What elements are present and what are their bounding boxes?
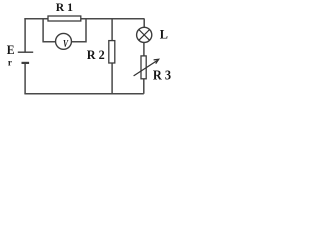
- svg-text:V: V: [63, 39, 69, 50]
- svg-text:L: L: [160, 28, 168, 42]
- wire voltmeter left drop: [42, 19, 56, 42]
- voltmeter V: circle body: [56, 33, 72, 49]
- wire top horizontal: [24, 18, 144, 20]
- lamp L: X cross: [139, 30, 150, 41]
- resistor R2 box: [109, 41, 115, 63]
- wire left vertical upper (to battery): [24, 19, 26, 52]
- battery E (internal resistance r): long positive plate: [18, 51, 33, 53]
- wire left vertical lower (from battery): [24, 63, 26, 94]
- svg-text:R 3: R 3: [153, 67, 172, 82]
- resistor R3 box: [141, 56, 146, 79]
- svg-text:E: E: [7, 42, 15, 57]
- lamp L: circle body: [137, 27, 152, 42]
- rheostat arrow of R3: [134, 59, 159, 76]
- resistor R1 box: [48, 16, 81, 21]
- svg-text:r: r: [8, 58, 12, 68]
- wire right vertical branch: [143, 19, 145, 94]
- wire voltmeter right rise: [71, 19, 86, 43]
- svg-text:R 2: R 2: [87, 48, 105, 62]
- wire R2 vertical branch: [111, 19, 113, 94]
- wire bottom horizontal: [24, 93, 143, 95]
- battery E: short thick negative plate: [22, 62, 30, 64]
- svg-text:R 1: R 1: [56, 2, 73, 14]
